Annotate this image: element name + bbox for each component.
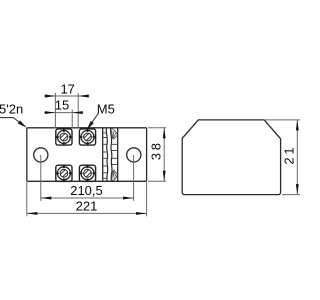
break wavy line 2: [111, 128, 112, 181]
mounting hole left: [34, 148, 48, 162]
dimension 221 extension line right: [146, 182, 148, 216]
dimension 17 extension line left: [54, 93, 56, 129]
svg-text:17: 17: [60, 82, 74, 97]
break strip right edge: [117, 128, 119, 182]
dimension line 221: [27, 212, 147, 214]
svg-text:M5: M5: [97, 101, 115, 116]
dimension 17 extension line right: [77, 93, 79, 129]
dimension line 17: [55, 95, 78, 97]
dimension 21 extension line bottom: [282, 194, 300, 196]
break hatch rungs left: [103, 133, 107, 178]
terminal screw bottom-right: [79, 165, 96, 182]
dimension 38 extension line top: [148, 127, 166, 129]
svg-text:210,5: 210,5: [70, 183, 103, 198]
svg-text:5'2n: 5'2n: [0, 102, 23, 117]
dimension 15 extension line right: [71, 110, 73, 129]
svg-text:38: 38: [148, 140, 163, 160]
terminal screw bottom-left: [55, 165, 72, 182]
terminal screw top-right: [79, 128, 96, 145]
break hatch rungs right: [112, 144, 118, 164]
dimension line 21: [296, 120, 298, 195]
dimension 21 extension line top: [264, 119, 300, 121]
side view body outline: [182, 120, 280, 195]
leader 5'2n: [0, 118, 25, 127]
break fan lens top-right: [111, 128, 118, 139]
leader M5: [89, 113, 99, 127]
dimension 221 extension line left: [26, 182, 28, 216]
break wavy line 1: [106, 128, 107, 181]
dimension line 38: [163, 128, 165, 182]
front view body outline: [27, 128, 147, 182]
break fan lens bottom-right: [111, 170, 117, 181]
dimension line 210,5: [41, 197, 134, 199]
svg-text:221: 221: [76, 198, 98, 213]
svg-text:15: 15: [55, 97, 69, 112]
svg-text:21: 21: [281, 145, 296, 165]
dimension 210,5 extension line right: [133, 155, 135, 201]
break strip left edge: [102, 128, 104, 182]
dimension 38 extension line bottom: [148, 180, 166, 182]
mounting hole right: [127, 148, 141, 162]
terminal screw top-left: [55, 128, 72, 145]
dimension line 15: [55, 112, 72, 114]
dimension 210,5 extension line left: [40, 155, 42, 201]
